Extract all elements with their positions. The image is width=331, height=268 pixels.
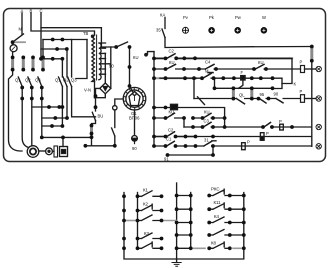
svg-text:90: 90 — [274, 92, 279, 97]
svg-text:C: C — [40, 9, 43, 14]
svg-text:95: 95 — [260, 92, 265, 97]
svg-text:М: М — [205, 69, 209, 74]
svg-text:К3: К3 — [144, 231, 150, 236]
svg-text:ВП06: ВП06 — [129, 116, 140, 121]
svg-text:90: 90 — [132, 146, 137, 151]
svg-text:Р: Р — [266, 131, 269, 136]
svg-text:М: М — [19, 27, 23, 32]
svg-text:Pw: Pw — [235, 15, 242, 20]
svg-text:Q3: Q3 — [35, 78, 41, 83]
svg-text:КU: КU — [169, 110, 174, 115]
svg-text:К11: К11 — [214, 200, 222, 205]
svg-text:КU: КU — [258, 60, 263, 65]
svg-text:С2: С2 — [168, 128, 174, 133]
svg-text:Р: Р — [300, 89, 303, 94]
svg-text:С2: С2 — [169, 49, 175, 54]
svg-text:РКС: РКС — [211, 186, 220, 191]
svg-text:К4: К4 — [214, 214, 220, 219]
svg-text:КА: КА — [160, 13, 165, 18]
svg-text:К2: К2 — [143, 202, 149, 207]
svg-text:КU: КU — [169, 60, 174, 65]
svg-text:К8: К8 — [211, 240, 217, 245]
svg-text:Q1: Q1 — [55, 78, 61, 83]
svg-text:A: A — [21, 9, 24, 14]
svg-text:Q2: Q2 — [63, 78, 69, 83]
svg-text:К1: К1 — [143, 187, 149, 192]
svg-text:Q2: Q2 — [25, 78, 31, 83]
svg-text:С1: С1 — [166, 137, 172, 142]
svg-text:31: 31 — [204, 138, 209, 143]
svg-text:V-N: V-N — [84, 88, 91, 93]
svg-text:QL: QL — [239, 93, 245, 98]
svg-text:B: B — [30, 9, 33, 14]
svg-text:Р: Р — [300, 60, 303, 65]
svg-text:С3: С3 — [204, 119, 210, 124]
svg-text:90: 90 — [109, 64, 114, 69]
svg-text:Р: Р — [279, 119, 282, 124]
svg-text:F: F — [241, 70, 244, 75]
svg-text:Q1: Q1 — [15, 78, 21, 83]
svg-text:С4: С4 — [205, 60, 211, 65]
svg-text:Q3: Q3 — [71, 78, 77, 83]
svg-text:ВU: ВU — [98, 114, 104, 119]
svg-text:ТВ: ТВ — [83, 31, 89, 36]
svg-text:W: W — [262, 15, 266, 20]
svg-text:91: 91 — [164, 157, 169, 162]
svg-text:КU: КU — [204, 110, 209, 115]
svg-text:Р: Р — [247, 140, 250, 145]
svg-text:35: 35 — [156, 28, 161, 33]
svg-text:КU: КU — [133, 55, 138, 60]
